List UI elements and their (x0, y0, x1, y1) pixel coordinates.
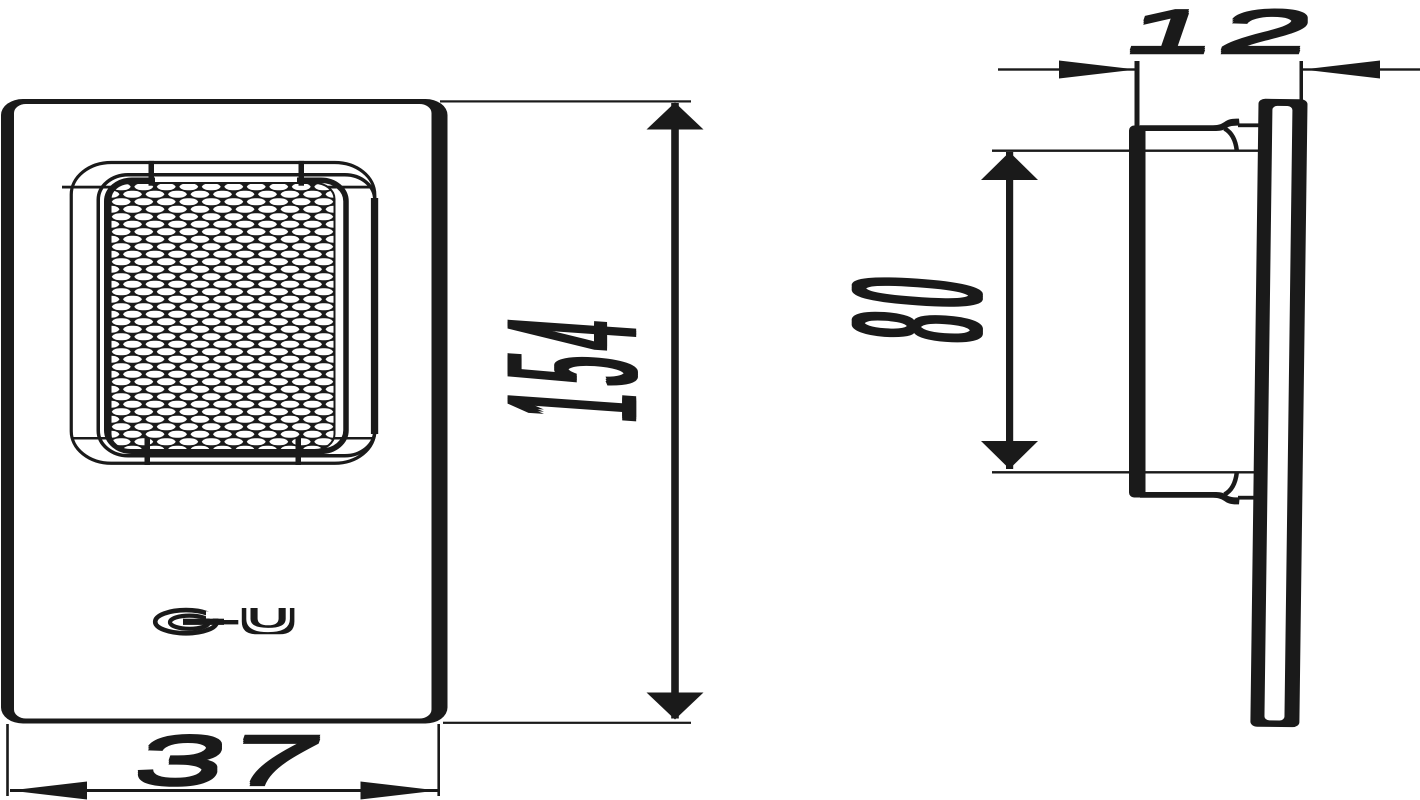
dim 37: extension line left (6, 724, 9, 796)
dim 154: dimension line (671, 103, 679, 719)
knurled mesh field (111, 183, 335, 450)
svg-text:80: 80 (813, 265, 1021, 349)
dim 12: dimension line left (998, 68, 1136, 70)
grip recess C top interruption (155, 177, 297, 182)
dim 12: arrow left (1059, 61, 1136, 79)
svg-text:154: 154 (467, 306, 676, 428)
dim 80: arrow top (981, 152, 1038, 180)
dim 154: label (467, 302, 676, 428)
grip recess outline B (middle) (98, 175, 375, 456)
dim 37: extension line right (437, 724, 440, 796)
dim 12: dimension line right (1303, 68, 1420, 70)
G-U logo: letter U white channel (248, 608, 287, 630)
dim 154: arrow top (647, 103, 704, 130)
grip tangent chord top (62, 186, 373, 189)
G-U logo: G crossbar (183, 619, 224, 625)
side view: bottom lip band (992, 471, 1259, 504)
tick bottom left (145, 438, 151, 465)
dim 37: dimension line (10, 789, 438, 792)
G-U logo: letter G outer ring (155, 610, 217, 633)
side view: top lip band (1140, 119, 1240, 131)
svg-text:12: 12 (1112, 1, 1326, 68)
tick bottom right (296, 438, 302, 465)
dim 12: arrow right (1303, 61, 1380, 79)
dim 80: label (813, 261, 1021, 349)
dim 12: extension line left (1135, 61, 1140, 131)
G-U logo: dash (224, 620, 239, 624)
grip recess right double line (371, 198, 378, 434)
dim 154: arrow bottom (647, 693, 704, 720)
grip recess outline A (outer) (71, 163, 375, 464)
svg-text:37: 37 (122, 724, 333, 800)
G-U logo: letter U body (242, 608, 295, 634)
dim 37: label (122, 720, 333, 800)
grip recess outline C (inner thick) (107, 180, 346, 451)
dim 37: arrow right (361, 782, 438, 800)
dim 80: dimension line (1006, 152, 1013, 469)
tick top right (299, 161, 305, 186)
side view: shell back bar (1129, 126, 1146, 498)
dim 154: extension line top (440, 100, 691, 102)
dim 12: extension line right (1300, 61, 1304, 100)
side view: top lip outer edge to plate (1238, 123, 1259, 127)
dim 154: extension line bottom (443, 722, 691, 724)
side view: top lip S-curve (1225, 129, 1237, 151)
G-U logo: letter G inner ring (170, 616, 209, 629)
side view: face plate (tilted) (1250, 99, 1307, 728)
front view plate outline (1, 99, 448, 724)
dim 12: label (1112, 0, 1326, 67)
tick top left (149, 161, 155, 186)
G-U logo: spiral notch (206, 611, 220, 618)
dim 37: arrow left (10, 782, 87, 800)
grip tangent chord bottom (71, 437, 373, 440)
side view: inner surface line top (80 ext) (992, 150, 1259, 152)
dim 80: arrow bottom (981, 441, 1038, 469)
